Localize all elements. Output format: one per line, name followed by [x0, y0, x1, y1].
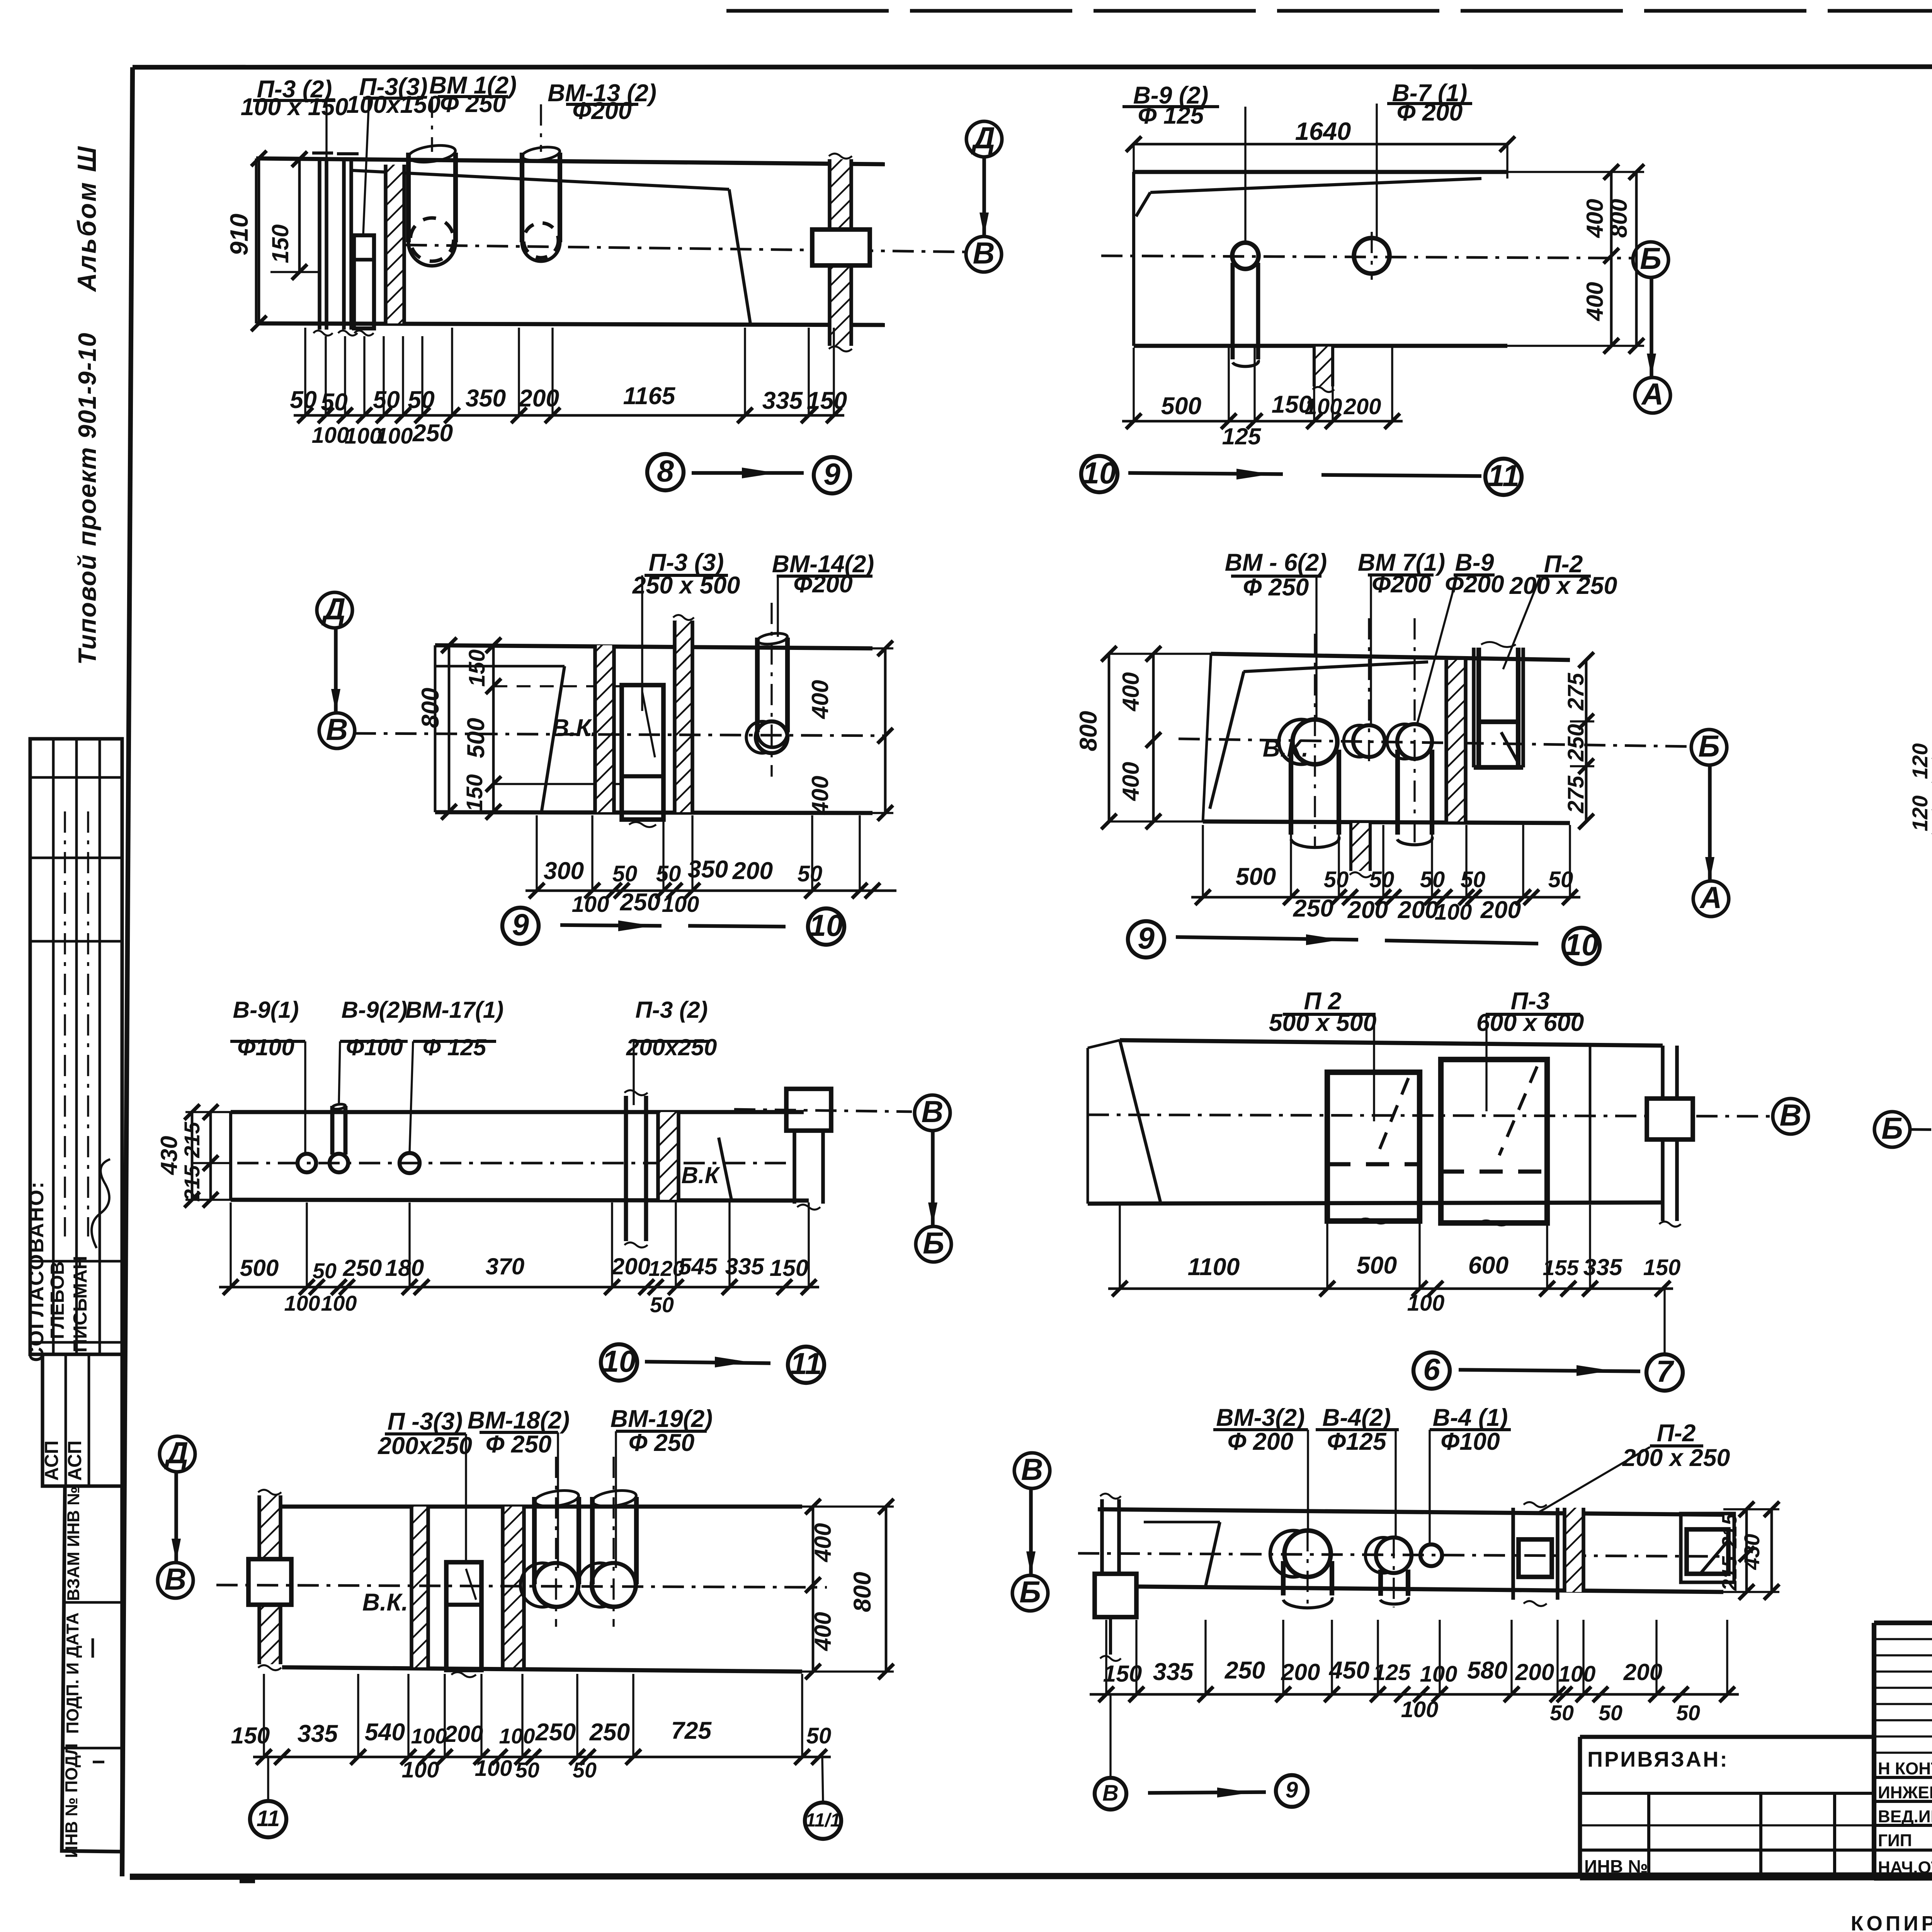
svg-text:400: 400: [1582, 282, 1608, 321]
view D body: [435, 645, 872, 648]
view L body: [1098, 1509, 1723, 1515]
sidebar asp cells: [43, 1354, 122, 1486]
svg-text:370: 370: [486, 1253, 525, 1279]
view L left wall with sleeve: [1100, 1499, 1104, 1616]
view E body: [1211, 654, 1570, 660]
svg-text:800: 800: [849, 1572, 876, 1612]
svg-text:Б: Б: [1881, 1111, 1903, 1145]
svg-text:250: 250: [412, 420, 453, 447]
svg-text:Типовой проект 901-9-10: Типовой проект 901-9-10: [73, 332, 101, 665]
svg-text:150: 150: [231, 1722, 270, 1748]
svg-text:Б: Б: [1019, 1575, 1041, 1609]
svg-text:100: 100: [321, 1291, 357, 1315]
svg-text:50: 50: [1420, 867, 1445, 892]
view E hole VM 7(1): [1353, 725, 1385, 757]
view K pipe VM-19(2): [590, 1497, 595, 1584]
view G hatched wall: [658, 1112, 679, 1200]
svg-text:50: 50: [373, 386, 400, 413]
svg-text:А: А: [1641, 377, 1664, 411]
axis B circle (view I): [1874, 1112, 1910, 1147]
view D duct P-3(3): [622, 685, 663, 820]
svg-text:9: 9: [1286, 1777, 1298, 1803]
view E pipe VM-6(2): [1293, 719, 1337, 764]
svg-text:275: 275: [1563, 776, 1588, 814]
axis A circle (view E): [1693, 881, 1729, 917]
svg-text:9: 9: [1138, 921, 1155, 955]
svg-text:11: 11: [790, 1347, 822, 1381]
svg-text:200: 200: [732, 857, 773, 884]
svg-text:200: 200: [1281, 1659, 1320, 1685]
svg-text:Н КОНТР: Н КОНТР: [1878, 1759, 1932, 1778]
svg-text:50: 50: [798, 861, 823, 886]
view L dimension chain: [1090, 1693, 1739, 1696]
svg-text:400: 400: [1582, 199, 1608, 238]
svg-text:Альбом Ш: Альбом Ш: [73, 145, 102, 292]
axis V circle (view L): [1014, 1453, 1050, 1488]
svg-text:200: 200: [1344, 394, 1381, 419]
svg-text:В: В: [1780, 1098, 1802, 1132]
svg-text:150: 150: [770, 1255, 809, 1281]
view A pipe VM-13(2): [520, 153, 524, 242]
view K leaders: [465, 1434, 467, 1562]
view E leaders: [1315, 576, 1317, 718]
axis D circle (view D): [317, 592, 352, 628]
view L hatched wall: [1565, 1508, 1583, 1592]
svg-text:Ф 250: Ф 250: [1243, 574, 1309, 601]
view A niche body: [256, 158, 885, 164]
view D dimension chain: [526, 889, 896, 892]
view G leaders: [304, 1041, 306, 1153]
svg-text:600: 600: [1468, 1252, 1509, 1279]
svg-text:120: 120: [1908, 796, 1932, 832]
view D section markers 9-10: [502, 908, 539, 944]
svg-text:125: 125: [1222, 423, 1262, 449]
svg-text:50: 50: [290, 386, 317, 413]
view K left wall with sleeve: [259, 1495, 281, 1664]
svg-text:100: 100: [312, 423, 349, 448]
axis D circle (view K): [160, 1436, 195, 1472]
svg-text:50: 50: [313, 1259, 337, 1283]
svg-text:500 x 500: 500 x 500: [1269, 1009, 1377, 1036]
svg-text:ВЗАМ ИНВ №: ВЗАМ ИНВ №: [64, 1486, 83, 1601]
svg-text:100: 100: [1401, 1697, 1439, 1722]
svg-text:500: 500: [240, 1255, 279, 1281]
view L duct A: [1511, 1508, 1515, 1600]
svg-text:275: 275: [1563, 673, 1588, 711]
view L slant: [1206, 1522, 1220, 1586]
svg-text:Ф200: Ф200: [572, 97, 632, 124]
svg-text:800: 800: [1605, 199, 1632, 238]
svg-text:Ф 250: Ф 250: [486, 1431, 552, 1458]
svg-text:В-4 (1): В-4 (1): [1433, 1404, 1508, 1431]
svg-text:ВМ-3(2): ВМ-3(2): [1216, 1404, 1305, 1431]
svg-text:150: 150: [1643, 1255, 1681, 1280]
axis A circle (view B): [1635, 378, 1670, 413]
svg-text:200x250: 200x250: [626, 1034, 717, 1060]
svg-text:В: В: [973, 236, 995, 270]
svg-text:100: 100: [402, 1757, 439, 1782]
svg-text:50: 50: [806, 1723, 832, 1748]
sidebar stamp table: [30, 739, 122, 1354]
svg-text:9: 9: [823, 457, 840, 491]
svg-text:100: 100: [1407, 1291, 1445, 1316]
svg-text:250: 250: [1225, 1657, 1265, 1684]
view G right sleeve column: [786, 1089, 831, 1131]
svg-text:200x250: 200x250: [378, 1432, 472, 1459]
svg-text:250: 250: [589, 1719, 630, 1746]
svg-text:430: 430: [1740, 1534, 1764, 1570]
svg-text:ВМ-19(2): ВМ-19(2): [611, 1405, 713, 1432]
view G holes V-9(1) V-9(2) VM-17(1): [298, 1154, 316, 1172]
svg-text:9: 9: [512, 908, 529, 942]
svg-text:300: 300: [544, 857, 584, 884]
view A dimension chain: [294, 414, 844, 417]
axis B circle (view G): [916, 1226, 951, 1262]
svg-text:ИНЖЕНЕР: ИНЖЕНЕР: [1878, 1783, 1932, 1802]
svg-text:400: 400: [1117, 672, 1144, 712]
svg-text:50: 50: [1548, 867, 1573, 892]
view G V slant: [719, 1138, 731, 1200]
view K centre axis: [216, 1585, 827, 1587]
svg-text:Ф200: Ф200: [1372, 571, 1431, 598]
view L pipe V-4(2): [1376, 1537, 1412, 1573]
svg-text:1165: 1165: [623, 383, 676, 410]
svg-text:350: 350: [688, 856, 728, 883]
svg-text:В.К: В.К: [681, 1162, 720, 1188]
svg-text:В: В: [922, 1095, 944, 1129]
view B leaders: [1244, 107, 1246, 242]
svg-text:10: 10: [1082, 456, 1116, 490]
svg-text:400: 400: [807, 776, 833, 815]
svg-text:50: 50: [1461, 867, 1486, 892]
svg-text:800: 800: [1075, 711, 1102, 752]
svg-text:200: 200: [1515, 1659, 1554, 1685]
view G body: [231, 1110, 804, 1114]
page top dashed border: [726, 9, 1932, 13]
view B section markers 10-11: [1081, 456, 1117, 492]
svg-text:50: 50: [612, 861, 638, 886]
svg-text:Д: Д: [971, 121, 995, 155]
svg-text:200: 200: [444, 1721, 483, 1747]
view E wall stub below: [1351, 823, 1370, 871]
svg-text:215: 215: [1718, 1513, 1741, 1548]
svg-text:В: В: [1102, 1781, 1119, 1806]
svg-text:Ф 125: Ф 125: [1138, 102, 1204, 129]
view K right dims 400/400,800: [812, 1507, 815, 1672]
svg-text:ПОДП. И ДАТА: ПОДП. И ДАТА: [63, 1612, 82, 1734]
svg-text:В: В: [1021, 1452, 1043, 1486]
svg-text:580: 580: [1467, 1657, 1508, 1684]
svg-text:50: 50: [408, 386, 435, 413]
svg-text:150: 150: [1103, 1660, 1142, 1687]
svg-text:350: 350: [466, 385, 506, 412]
svg-text:215: 215: [180, 1122, 204, 1158]
view A hatched wall: [386, 165, 404, 323]
view E left dims 800,400/400: [1108, 654, 1111, 821]
svg-text:В.К.: В.К.: [362, 1589, 408, 1616]
svg-text:АСП: АСП: [41, 1440, 62, 1481]
bottom border: [130, 1875, 1932, 1877]
sidebar signature: [92, 1159, 110, 1248]
svg-text:540: 540: [365, 1719, 405, 1746]
svg-text:150: 150: [462, 774, 487, 812]
view B hole V-7(1): [1354, 238, 1389, 274]
svg-text:215: 215: [180, 1165, 204, 1202]
svg-text:50: 50: [515, 1758, 539, 1782]
svg-text:200: 200: [1623, 1659, 1663, 1685]
svg-text:100: 100: [662, 892, 699, 917]
svg-text:100: 100: [475, 1756, 512, 1781]
view D centre axis: [355, 733, 885, 736]
view E centre axis: [1179, 739, 1691, 747]
axis V circle (view H): [1773, 1099, 1808, 1134]
view H right column with sleeve: [1589, 1046, 1592, 1202]
svg-text:НАЧ.ОТД: НАЧ.ОТД: [1878, 1858, 1932, 1877]
view H section markers 6-7: [1413, 1352, 1450, 1389]
svg-text:ВМ-18(2): ВМ-18(2): [468, 1407, 570, 1434]
svg-text:Ф 125: Ф 125: [423, 1034, 487, 1060]
svg-text:11: 11: [257, 1806, 280, 1831]
view B centre axis: [1101, 256, 1633, 258]
svg-text:Б: Б: [1640, 241, 1662, 276]
svg-text:200: 200: [1347, 896, 1388, 923]
svg-text:В: В: [326, 713, 348, 747]
svg-text:Б: Б: [923, 1226, 944, 1260]
svg-text:910: 910: [225, 214, 253, 255]
svg-text:Ф200: Ф200: [1445, 571, 1504, 598]
view G duct P-3(2): [624, 1096, 628, 1241]
svg-text:10: 10: [809, 908, 843, 942]
svg-text:800: 800: [417, 688, 444, 728]
svg-text:100: 100: [411, 1724, 447, 1748]
view D right dims 400/400: [884, 648, 887, 813]
svg-text:400: 400: [1117, 762, 1144, 801]
svg-text:250: 250: [535, 1719, 576, 1746]
svg-text:10: 10: [602, 1344, 636, 1378]
svg-text:Ф200: Ф200: [793, 571, 853, 598]
svg-text:Ф 200: Ф 200: [1228, 1428, 1294, 1455]
svg-text:100: 100: [1420, 1662, 1458, 1687]
svg-text:ГИП: ГИП: [1878, 1831, 1912, 1850]
svg-text:50: 50: [650, 1293, 674, 1317]
svg-text:Ф100: Ф100: [237, 1034, 294, 1060]
svg-text:СОГЛАСОВАНО:: СОГЛАСОВАНО:: [25, 1180, 48, 1362]
svg-text:В.К.: В.К.: [552, 714, 598, 742]
svg-text:П-3 (2): П-3 (2): [635, 997, 707, 1023]
svg-text:450: 450: [1328, 1657, 1370, 1684]
view H dimension chain: [1108, 1287, 1673, 1290]
svg-text:ПИСЬМАН: ПИСЬМАН: [70, 1256, 91, 1352]
view H duct P-3: [1441, 1060, 1547, 1223]
svg-text:50: 50: [656, 861, 681, 886]
svg-text:50: 50: [1324, 867, 1349, 892]
view K duct P-3(3): [446, 1562, 481, 1670]
svg-text:600 x 600: 600 x 600: [1476, 1009, 1584, 1036]
svg-text:6: 6: [1423, 1352, 1440, 1386]
svg-text:200 x 250: 200 x 250: [1509, 572, 1617, 599]
svg-text:150: 150: [807, 387, 847, 414]
svg-text:50: 50: [573, 1758, 597, 1782]
svg-text:400: 400: [810, 1612, 836, 1651]
view L pipe VM-3(2): [1284, 1531, 1331, 1577]
axis V circle (view K): [158, 1563, 193, 1598]
view D hatched wall 1: [595, 645, 614, 812]
view G left dims 430,215/215: [191, 1112, 194, 1200]
svg-text:500: 500: [1357, 1252, 1397, 1279]
view H body: [1120, 1040, 1663, 1046]
svg-text:Ф 250: Ф 250: [629, 1429, 695, 1456]
svg-text:200: 200: [611, 1253, 651, 1279]
view K section markers 11-11/1: [267, 1757, 269, 1801]
title block signature table: [1874, 1621, 1932, 1625]
svg-text:430: 430: [156, 1136, 182, 1175]
view K dimension chain: [253, 1756, 831, 1759]
svg-text:100: 100: [376, 423, 413, 449]
view D hatched wall 2: [675, 621, 692, 812]
main frame: [133, 66, 1932, 67]
view E right dims 275/250/275: [1585, 660, 1588, 821]
view G centre axis: [237, 1162, 786, 1165]
svg-text:11: 11: [1488, 459, 1519, 493]
svg-text:180: 180: [385, 1255, 424, 1281]
view H leaders: [1373, 1014, 1375, 1121]
view E pipe V-9: [1397, 724, 1432, 759]
svg-text:500: 500: [463, 718, 490, 759]
view E section markers 9-10: [1128, 921, 1164, 957]
svg-text:ИНВ №: ИНВ №: [1584, 1856, 1648, 1876]
view B right dims 400/800: [1610, 172, 1613, 346]
svg-text:215: 215: [1718, 1556, 1741, 1591]
svg-text:50: 50: [1550, 1701, 1574, 1725]
svg-text:100x150: 100x150: [346, 91, 440, 118]
svg-text:Д: Д: [321, 592, 346, 626]
svg-text:200: 200: [519, 385, 560, 412]
svg-text:335: 335: [762, 387, 803, 414]
svg-text:200 x 250: 200 x 250: [1622, 1444, 1730, 1471]
svg-text:100: 100: [1558, 1662, 1596, 1687]
svg-text:50: 50: [1676, 1701, 1700, 1725]
view A vertical dims 910/150: [258, 158, 260, 323]
axis B circle (view B): [1633, 242, 1668, 277]
view L section markers V-9: [1109, 1694, 1111, 1776]
view A duct P-3(3): [354, 235, 374, 328]
svg-text:155: 155: [1543, 1256, 1579, 1280]
view D left dims 800,150/500/150: [448, 645, 451, 812]
svg-text:50: 50: [1369, 867, 1395, 892]
svg-text:335: 335: [1583, 1254, 1623, 1280]
svg-text:Ф125: Ф125: [1327, 1428, 1387, 1455]
svg-text:8: 8: [657, 454, 674, 488]
view G section markers 10-11: [601, 1344, 637, 1381]
view B pipe V-9(2): [1232, 243, 1259, 269]
svg-text:250: 250: [1293, 895, 1334, 922]
svg-text:100: 100: [1305, 394, 1342, 419]
view K hatched wall 3: [503, 1507, 524, 1667]
svg-text:100 x 150: 100 x 150: [241, 94, 349, 121]
svg-text:1640: 1640: [1295, 117, 1351, 145]
view A centre axis: [406, 245, 965, 252]
view A pipe VM 1(2): [406, 153, 411, 242]
svg-text:7: 7: [1656, 1354, 1674, 1388]
svg-text:10: 10: [1565, 928, 1599, 962]
svg-text:П -3(3): П -3(3): [388, 1408, 463, 1435]
axis V circle (view G): [915, 1095, 950, 1131]
svg-text:Ф100: Ф100: [346, 1034, 403, 1060]
svg-text:11/1: 11/1: [805, 1810, 840, 1831]
svg-text:335: 335: [1153, 1658, 1194, 1685]
svg-text:725: 725: [671, 1717, 712, 1744]
svg-text:500: 500: [1161, 393, 1202, 420]
view E hatched wall: [1446, 660, 1466, 821]
view L hole V-4(1): [1420, 1544, 1442, 1566]
svg-text:150: 150: [267, 224, 293, 264]
view A right wall with sleeve: [830, 159, 851, 346]
view L leaders: [1307, 1430, 1309, 1529]
sidebar inventory column: [62, 1486, 122, 1852]
svg-text:400: 400: [807, 680, 833, 719]
view B niche body: [1134, 170, 1507, 174]
svg-text:250 x 500: 250 x 500: [632, 572, 740, 599]
svg-text:545: 545: [679, 1253, 718, 1279]
svg-text:Ф 200: Ф 200: [1397, 99, 1463, 126]
view L duct B: [1681, 1514, 1734, 1582]
svg-text:КОПИРОВАЛ ЛОГИНОВА: КОПИРОВАЛ ЛОГИНОВА: [1851, 1912, 1932, 1932]
svg-text:100: 100: [572, 892, 609, 917]
svg-text:ВМ-17(1): ВМ-17(1): [405, 997, 504, 1023]
svg-text:335: 335: [298, 1720, 338, 1747]
svg-text:ВМ - 6(2): ВМ - 6(2): [1225, 549, 1327, 576]
axis B circle (view E): [1691, 730, 1727, 765]
svg-text:500: 500: [1236, 863, 1276, 890]
svg-text:В-9(2): В-9(2): [342, 997, 408, 1023]
svg-text:200: 200: [1398, 896, 1439, 923]
svg-text:В: В: [165, 1562, 187, 1596]
view A leaders: [325, 100, 327, 158]
svg-text:АСП: АСП: [65, 1440, 85, 1481]
view D pipe VM-14(2): [755, 638, 760, 732]
svg-text:Б: Б: [1698, 729, 1720, 763]
view H duct P2: [1327, 1072, 1420, 1221]
svg-text:100: 100: [284, 1291, 320, 1315]
svg-text:В-9(1): В-9(1): [233, 997, 299, 1023]
svg-text:ВЕД.ИНЖ: ВЕД.ИНЖ: [1878, 1807, 1932, 1826]
svg-text:ПРИВЯЗАН:: ПРИВЯЗАН:: [1587, 1747, 1729, 1771]
svg-text:ИНВ № ПОДЛ: ИНВ № ПОДЛ: [62, 1743, 81, 1858]
view A thin duct walls: [318, 158, 321, 330]
svg-text:1100: 1100: [1188, 1253, 1240, 1281]
axis D circle (view A/B): [966, 121, 1002, 157]
svg-text:П-2: П-2: [1657, 1420, 1696, 1447]
axis V circle (view D): [319, 713, 355, 748]
svg-text:Д: Д: [164, 1436, 189, 1470]
svg-text:200: 200: [1480, 896, 1521, 923]
svg-text:250: 250: [1563, 724, 1588, 762]
svg-text:125: 125: [1373, 1660, 1411, 1685]
svg-text:А: А: [1699, 881, 1722, 915]
view E duct P-2: [1472, 648, 1476, 767]
privyazan box: [1580, 1735, 1874, 1739]
view D leaders: [641, 575, 643, 711]
svg-text:100: 100: [499, 1724, 535, 1748]
view G dimension chain: [219, 1286, 819, 1289]
svg-text:В-4(2): В-4(2): [1322, 1404, 1391, 1431]
view K pipe VM-18(2): [532, 1497, 537, 1584]
svg-text:400: 400: [810, 1523, 836, 1563]
view A section markers 8-9: [647, 454, 684, 490]
view K hatched wall 2: [412, 1507, 428, 1667]
svg-text:50: 50: [321, 389, 348, 416]
axis B circle (view L): [1012, 1575, 1048, 1611]
